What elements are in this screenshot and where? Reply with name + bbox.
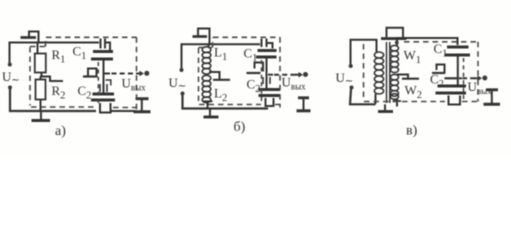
svg-text:C1: C1 bbox=[434, 41, 448, 60]
transformer secondary W1 bbox=[391, 45, 399, 72]
svg-text:в): в) bbox=[406, 124, 418, 139]
capacitor C2 flanking jog bbox=[99, 84, 101, 92]
ground output chassis bbox=[136, 97, 149, 100]
svg-text:R1: R1 bbox=[52, 47, 66, 66]
wire C2 side hook bbox=[106, 80, 111, 86]
wire secondary tap bbox=[397, 75, 408, 79]
capacitor C2 plate lower b bbox=[259, 94, 281, 97]
wire output tap b bbox=[268, 74, 273, 76]
node source terminal top dot v bbox=[349, 64, 353, 68]
wire output tap bbox=[105, 73, 111, 75]
svg-text:L1: L1 bbox=[214, 45, 227, 64]
wire C2 bottom shield pass-through v bbox=[449, 96, 461, 105]
wire C2 bottom shield pass-through b bbox=[266, 98, 274, 106]
wire output arrow v bbox=[474, 77, 481, 79]
resistor R2 bbox=[36, 80, 46, 100]
wire midpoint hook bbox=[88, 69, 97, 78]
resistor R1 lead top bbox=[37, 43, 39, 54]
wire output arrow b bbox=[295, 74, 302, 76]
shield partition b (dashed) bbox=[261, 60, 263, 102]
wire secondary bottom lead bbox=[396, 99, 398, 107]
wire midpoint hook b bbox=[255, 63, 264, 72]
node source terminal bottom dot bbox=[8, 86, 12, 90]
wire bottom right link bbox=[111, 110, 137, 112]
svg-text:C2: C2 bbox=[247, 77, 261, 96]
capacitor C1 plate lower b bbox=[256, 56, 277, 59]
node output terminal bbox=[144, 71, 149, 76]
shield partition a (dashed) bbox=[97, 62, 99, 104]
resistor R2 lead bottom bbox=[40, 100, 42, 112]
svg-text:L2: L2 bbox=[214, 86, 227, 105]
wire left rail upper b bbox=[182, 44, 261, 69]
capacitor C1 plate lower v bbox=[445, 54, 471, 57]
wire inductor tap bbox=[209, 72, 220, 79]
wire C2 bottom shield pass-through bbox=[100, 103, 111, 113]
capacitor C1 plate lower bbox=[91, 58, 113, 61]
svg-text:а): а) bbox=[55, 124, 66, 139]
inductor L1 bbox=[202, 47, 211, 74]
wire left rail upper (source terminal) bbox=[10, 43, 100, 65]
svg-text:W1: W1 bbox=[404, 48, 422, 67]
wire output tap v bbox=[459, 77, 462, 79]
wire coil bottom lead bbox=[207, 102, 209, 109]
ground output chassis v bbox=[486, 88, 498, 91]
ground output chassis b bbox=[298, 96, 309, 99]
wire C1 corner b bbox=[268, 43, 273, 49]
wire top hook jumper v bbox=[387, 28, 404, 37]
wire left rail lower b bbox=[183, 95, 269, 109]
svg-text:W2: W2 bbox=[405, 83, 423, 102]
node source terminal bottom dot b bbox=[181, 92, 185, 96]
svg-text:C2: C2 bbox=[430, 72, 444, 91]
inductor L2 bbox=[202, 75, 211, 102]
shield partition v (dashed) bbox=[463, 58, 465, 100]
capacitor C2 plate upper v bbox=[438, 85, 467, 88]
capacitor C1 plate upper v bbox=[447, 46, 469, 49]
ground divider b bbox=[209, 109, 211, 117]
wire secondary top lead bbox=[397, 38, 458, 46]
svg-text:R2: R2 bbox=[52, 83, 66, 102]
svg-text:U∼: U∼ bbox=[336, 70, 354, 87]
wire hook base bar b bbox=[193, 35, 208, 38]
node output terminal v bbox=[482, 76, 487, 81]
wire left rail lower v bbox=[350, 89, 376, 104]
svg-text:U∼: U∼ bbox=[169, 75, 187, 92]
wire midpoint bar v bbox=[432, 72, 445, 74]
wire midpoint bar b bbox=[247, 72, 261, 74]
wire C-column stem b bbox=[266, 59, 268, 89]
svg-text:C1: C1 bbox=[244, 46, 258, 65]
shield box b (dashed) bbox=[199, 37, 281, 107]
svg-text:C2: C2 bbox=[78, 83, 92, 102]
wire hook base bar v bbox=[381, 37, 407, 40]
wire left rail lower bbox=[10, 89, 96, 111]
transformer primary winding bbox=[374, 52, 383, 94]
inductor L1 lead top bbox=[208, 44, 210, 47]
svg-text:U∼: U∼ bbox=[2, 69, 20, 86]
capacitor C2 plate upper b bbox=[259, 88, 281, 91]
node source terminal bottom dot v bbox=[350, 86, 354, 90]
resistor R2 lead top bbox=[40, 77, 42, 80]
transformer core bbox=[386, 42, 388, 103]
transformer secondary W2 bbox=[391, 74, 399, 99]
wire hook base bar bbox=[21, 36, 37, 39]
wire output arrow bbox=[136, 73, 143, 75]
svg-text:Uвых: Uвых bbox=[122, 76, 147, 93]
node output terminal b bbox=[303, 72, 308, 77]
svg-text:C1: C1 bbox=[73, 44, 87, 63]
wire C1 to corner bbox=[106, 43, 110, 51]
capacitor C2 plate lower v bbox=[436, 92, 467, 95]
capacitor C2 plate lower bbox=[91, 99, 115, 102]
capacitor C2 flanking jog b bbox=[262, 77, 264, 84]
wire top hook jumper b bbox=[198, 29, 210, 45]
node secondary top junction bbox=[395, 41, 399, 45]
svg-text:Uвых: Uвых bbox=[468, 79, 493, 96]
capacitor C1 series plates in top wire bbox=[100, 39, 102, 49]
svg-text:Uвых: Uвых bbox=[282, 75, 307, 92]
node source terminal top dot b bbox=[180, 68, 184, 72]
wire top hook jumper bbox=[29, 32, 39, 43]
ground divider bbox=[40, 111, 42, 120]
ground divider v bbox=[384, 104, 386, 110]
wire C-column stem bbox=[103, 61, 105, 94]
capacitor C2 plate upper bbox=[93, 93, 115, 96]
wire left rail upper v bbox=[351, 40, 377, 65]
wire primary bottom lead bbox=[375, 94, 377, 104]
resistor R1 bbox=[35, 54, 46, 73]
wire C-column stem v bbox=[457, 57, 459, 86]
wire divider midpoint tap bbox=[40, 77, 63, 82]
node source terminal top dot bbox=[8, 63, 12, 67]
wire midpoint hook v bbox=[437, 65, 445, 74]
svg-text:б): б) bbox=[234, 120, 246, 135]
shield box a (dashed) bbox=[30, 37, 137, 110]
wire midpoint bar bbox=[83, 75, 98, 77]
capacitor C1 series plates b bbox=[261, 39, 263, 48]
wire midpoint bar2 v bbox=[445, 77, 459, 79]
shield box v (dashed) bbox=[364, 42, 479, 102]
capacitor C1 plate upper b bbox=[258, 49, 277, 52]
capacitor C1 plate upper bbox=[93, 50, 113, 53]
resistor R1 lead bottom bbox=[41, 73, 43, 77]
